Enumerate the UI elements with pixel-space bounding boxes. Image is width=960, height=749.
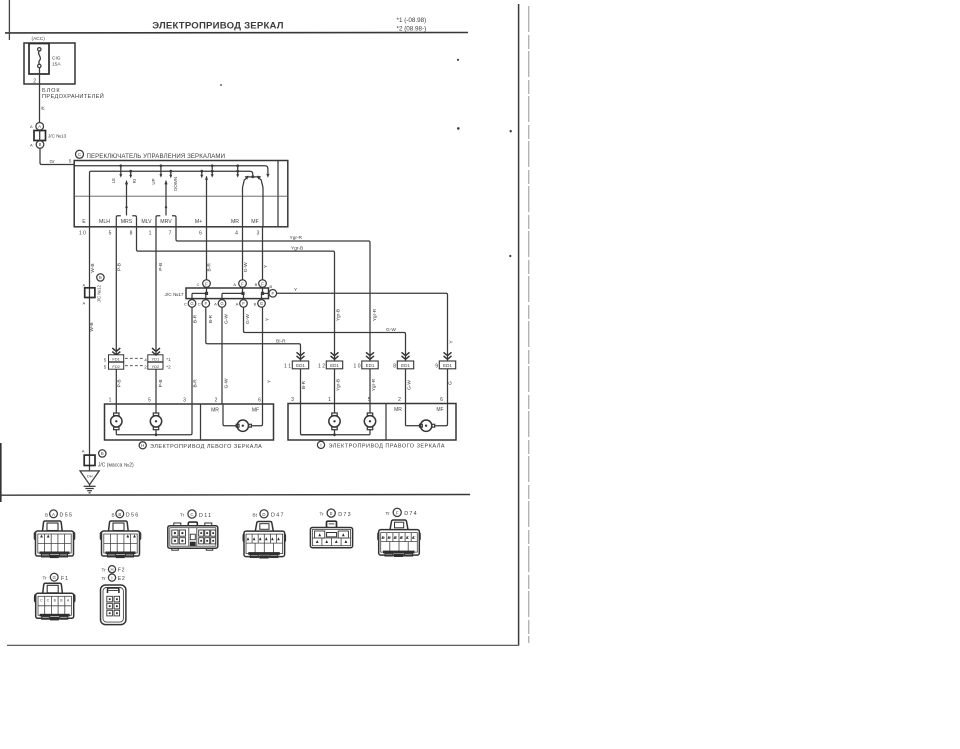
svg-text:*1 (-08.98): *1 (-08.98) bbox=[397, 17, 427, 24]
svg-text:YD1: YD1 bbox=[152, 356, 161, 361]
svg-text:2: 2 bbox=[33, 79, 36, 85]
svg-text:5: 5 bbox=[104, 365, 107, 370]
switch contact stub MF fixed crossing both buses bbox=[236, 164, 239, 177]
connector H drawing bbox=[101, 585, 126, 625]
svg-text:D11: D11 bbox=[199, 513, 212, 519]
svg-text:Ygr-B: Ygr-B bbox=[335, 379, 341, 391]
switch arch contact MR-MF bbox=[243, 176, 264, 188]
switch movable contact MRS bbox=[125, 180, 128, 216]
svg-text:ПЕРЕКЛЮЧАТЕЛЬ УПРАВЛЕНИЯ ЗЕРКА: ПЕРЕКЛЮЧАТЕЛЬ УПРАВЛЕНИЯ ЗЕРКАЛАМИ bbox=[87, 153, 226, 160]
page title bbox=[152, 20, 284, 31]
svg-text:2: 2 bbox=[398, 397, 401, 403]
svg-text:B-R: B-R bbox=[192, 379, 198, 388]
connector arrows above ED1 12 bbox=[331, 352, 339, 359]
wire E to ground, W-B bbox=[89, 227, 96, 471]
svg-text:J/C №17: J/C №17 bbox=[164, 292, 183, 298]
svg-text:F2: F2 bbox=[118, 568, 125, 574]
svg-text:C: C bbox=[184, 302, 187, 307]
left mirror caption bbox=[139, 442, 262, 450]
switch contact stub L fixed bbox=[119, 164, 122, 177]
wire G ED1 9 to right mirror pin6 bbox=[448, 369, 454, 404]
svg-text:G-W: G-W bbox=[245, 314, 251, 324]
svg-text:3: 3 bbox=[183, 398, 186, 404]
svg-text:1: 1 bbox=[149, 231, 152, 237]
svg-text:F: F bbox=[261, 281, 264, 286]
svg-text:Tr: Tr bbox=[43, 576, 48, 581]
svg-text:1 0: 1 0 bbox=[354, 364, 361, 370]
bottom page frame bbox=[7, 644, 519, 646]
svg-text:A: A bbox=[30, 143, 33, 148]
svg-text:I: I bbox=[320, 443, 321, 448]
connector arrows above FD1 bbox=[112, 348, 120, 355]
wire J/C13 to switch, color Gr bbox=[40, 148, 74, 164]
svg-text:G-W: G-W bbox=[243, 262, 249, 272]
svg-text:*1: *1 bbox=[166, 357, 171, 362]
wire arch leg MF to box bottom bbox=[262, 188, 264, 227]
wire MR G-W to J/C17 bbox=[243, 227, 249, 280]
svg-text:F1: F1 bbox=[61, 576, 69, 582]
svg-text:4: 4 bbox=[144, 357, 147, 362]
connector ED1 pin 10 bbox=[354, 361, 379, 370]
svg-text:5: 5 bbox=[368, 397, 371, 403]
right mirror pin numbers bbox=[291, 397, 443, 403]
svg-text:B: B bbox=[101, 451, 104, 456]
J/C17 top circle F pin A bbox=[233, 280, 246, 288]
J/C No12 junction on W-B wire bbox=[83, 274, 105, 306]
svg-text:MRS: MRS bbox=[121, 219, 133, 225]
wire J/C17 right output Y to ED1 9 bbox=[277, 287, 455, 361]
svg-text:DH: DH bbox=[87, 474, 93, 479]
J/C No17 box bbox=[164, 288, 268, 299]
J/C No13 junction bbox=[30, 123, 67, 149]
svg-text:ED1: ED1 bbox=[443, 363, 452, 368]
right mirror motor 2 bbox=[364, 413, 375, 435]
connector B pin marks bbox=[126, 535, 136, 538]
svg-text:1 1: 1 1 bbox=[284, 364, 291, 370]
right mirror MR-MF motor 3 bbox=[406, 404, 448, 432]
svg-text:D74: D74 bbox=[404, 511, 418, 517]
svg-text:(ACC): (ACC) bbox=[32, 36, 46, 42]
ground triangle bbox=[80, 471, 99, 485]
svg-text:G: G bbox=[448, 381, 454, 385]
svg-text:*2 (08.98-): *2 (08.98-) bbox=[397, 26, 427, 33]
switch inner middle line bbox=[74, 195, 288, 197]
svg-text:ED1: ED1 bbox=[401, 363, 410, 368]
connector ED1 pin 11 bbox=[284, 361, 309, 370]
svg-text:J/C №12: J/C №12 bbox=[97, 285, 102, 303]
connector ED1 pin 8 bbox=[393, 361, 413, 370]
svg-text:Ygr-R: Ygr-R bbox=[372, 308, 378, 321]
svg-text:B: B bbox=[99, 275, 102, 280]
svg-text:G: G bbox=[260, 301, 263, 306]
svg-text:B: B bbox=[112, 512, 115, 517]
svg-text:Ygr-B: Ygr-B bbox=[336, 309, 342, 321]
svg-text:A: A bbox=[214, 302, 217, 307]
svg-text:G-W: G-W bbox=[386, 327, 396, 333]
right page border second line bbox=[528, 6, 530, 643]
svg-text:15A: 15A bbox=[52, 62, 61, 68]
switch contact stub R2 fixed bbox=[169, 170, 172, 178]
svg-text:ЭЛЕКТРОПРИВОД ЛЕВОГО ЗЕРКАЛА: ЭЛЕКТРОПРИВОД ЛЕВОГО ЗЕРКАЛА bbox=[150, 444, 262, 450]
svg-text:E2: E2 bbox=[118, 576, 126, 582]
connector F top row letters bbox=[383, 536, 416, 540]
svg-text:E: E bbox=[330, 511, 333, 516]
svg-text:MF: MF bbox=[251, 219, 259, 225]
connector I label Tr E2 bbox=[102, 574, 126, 582]
svg-text:G: G bbox=[220, 301, 223, 306]
wire M+ B-R to J/C17 bbox=[207, 227, 213, 280]
svg-text:A: A bbox=[82, 449, 85, 454]
connector D drawing bbox=[243, 522, 285, 559]
wire G-W ED1 8 to right mirror pin2 bbox=[406, 369, 413, 426]
connector A drawing bbox=[34, 521, 74, 558]
bus1 end arrowhead bbox=[266, 174, 269, 178]
svg-text:A: A bbox=[83, 300, 86, 305]
wire MLV P-B column 2 bbox=[156, 217, 164, 404]
switch C label: mirror control switch bbox=[76, 150, 226, 160]
connector frame around MRV bbox=[156, 216, 176, 218]
svg-text:Tr: Tr bbox=[386, 511, 391, 516]
svg-text:P-B: P-B bbox=[158, 263, 164, 271]
svg-text:8: 8 bbox=[130, 231, 133, 237]
connector G label Tr F1 bbox=[43, 573, 69, 582]
svg-text:RI: RI bbox=[132, 179, 137, 183]
J/C17 bottom circle F pin C bbox=[198, 300, 210, 308]
svg-text:B-R: B-R bbox=[192, 314, 198, 323]
wire B-R ED1 11 to right mirror pin3 bbox=[301, 369, 335, 435]
svg-text:Ygr-B: Ygr-B bbox=[291, 246, 303, 252]
svg-text:C: C bbox=[197, 282, 200, 287]
connector F drawing bbox=[378, 520, 420, 557]
svg-text:6: 6 bbox=[199, 231, 202, 237]
right mirror bottom bus bbox=[301, 433, 371, 436]
svg-text:R: R bbox=[40, 106, 46, 110]
connector FD2-YD2 variant 2 bbox=[104, 362, 171, 370]
right mirror actuator box bbox=[288, 404, 456, 441]
svg-text:J/C №13: J/C №13 bbox=[48, 134, 67, 139]
J/C17 top circle F pin C bbox=[197, 280, 211, 288]
connector A pin marks bbox=[40, 535, 50, 538]
top rule bbox=[5, 32, 468, 34]
svg-text:F: F bbox=[205, 301, 208, 306]
svg-text:ED1: ED1 bbox=[366, 363, 375, 368]
J/C17 bottom circle F pin A bbox=[236, 300, 248, 308]
left page tick bbox=[8, 0, 10, 40]
right mirror caption bbox=[317, 441, 445, 449]
wire B-R to left mirror pin3 bbox=[192, 307, 198, 404]
connector arrows above ED1 8 bbox=[402, 352, 410, 359]
svg-text:2: 2 bbox=[215, 398, 218, 404]
svg-text:ЭЛЕКТРОПРИВОД ПРАВОГО ЗЕРКАЛА: ЭЛЕКТРОПРИВОД ПРАВОГО ЗЕРКАЛА bbox=[329, 444, 446, 450]
svg-text:9: 9 bbox=[435, 364, 438, 370]
svg-text:Tr: Tr bbox=[102, 568, 107, 573]
svg-text:1: 1 bbox=[328, 397, 331, 403]
svg-text:Tr: Tr bbox=[180, 513, 185, 518]
J/C17 bottom circle G pin C bbox=[184, 300, 196, 308]
connector arrows above ED1 9 bbox=[444, 352, 452, 359]
svg-text:7: 7 bbox=[169, 231, 172, 237]
connector ED1 pin 12 bbox=[318, 361, 343, 370]
svg-text:БЛОК: БЛОК bbox=[42, 88, 61, 94]
svg-text:P-B: P-B bbox=[116, 379, 122, 387]
switch contact stub UP fixed bbox=[200, 170, 203, 178]
svg-text:5: 5 bbox=[69, 158, 72, 163]
connector arrows above ED1 10 bbox=[366, 352, 374, 359]
svg-text:B: B bbox=[270, 284, 273, 289]
left mirror pin numbers bbox=[109, 398, 262, 404]
J/C17 internal bus C bbox=[192, 287, 208, 299]
svg-text:C: C bbox=[198, 302, 201, 307]
svg-text:4: 4 bbox=[235, 231, 238, 237]
svg-text:W-B: W-B bbox=[89, 322, 95, 331]
svg-text:I: I bbox=[111, 576, 112, 581]
wire G-W to left mirror pin2 bbox=[222, 307, 230, 404]
connector H label Tr F2 bbox=[102, 566, 126, 574]
svg-text:B: B bbox=[255, 282, 258, 287]
wire MLH P-B column 1 bbox=[116, 217, 122, 404]
svg-text:MRV: MRV bbox=[160, 219, 172, 225]
svg-text:FD1: FD1 bbox=[112, 356, 120, 361]
right mirror motor 1 bbox=[329, 413, 340, 435]
svg-text:ПРЕДОХРАНИТЕЛЕЙ: ПРЕДОХРАНИТЕЛЕЙ bbox=[42, 92, 104, 100]
fuse block outer box bbox=[24, 43, 75, 84]
svg-text:G-W: G-W bbox=[224, 378, 230, 388]
switch bus 2 with riser from E terminal bbox=[90, 171, 253, 227]
wire G-W to ED1 8 bbox=[244, 307, 406, 361]
left mirror MR MF labels bbox=[211, 407, 259, 413]
svg-text:1 0: 1 0 bbox=[79, 231, 86, 237]
svg-text:G-W: G-W bbox=[224, 314, 230, 324]
svg-text:E: E bbox=[82, 219, 86, 225]
svg-text:B-R: B-R bbox=[208, 314, 214, 323]
right mirror box divider bbox=[385, 404, 387, 441]
svg-text:*2: *2 bbox=[166, 364, 171, 369]
svg-text:H: H bbox=[110, 567, 113, 572]
svg-text:F: F bbox=[242, 301, 245, 306]
svg-text:FD2: FD2 bbox=[112, 364, 120, 369]
svg-text:A: A bbox=[52, 512, 55, 517]
schematic bottom rule bbox=[0, 494, 470, 497]
switch M+ line bbox=[206, 176, 208, 226]
svg-text:B-R: B-R bbox=[207, 263, 213, 272]
svg-text:H: H bbox=[141, 443, 144, 448]
svg-text:MLH: MLH bbox=[99, 219, 110, 225]
connector frame around MRS bbox=[116, 216, 136, 218]
svg-text:6: 6 bbox=[258, 398, 261, 404]
wire Y to left mirror pin6 bbox=[263, 307, 273, 404]
svg-text:UP: UP bbox=[151, 178, 156, 184]
connector D label Bt D47 bbox=[253, 510, 285, 519]
connector ED1 pin 9 bbox=[435, 361, 455, 370]
svg-text:DOWN: DOWN bbox=[173, 177, 178, 191]
svg-text:A: A bbox=[83, 283, 86, 288]
svg-text:MF: MF bbox=[436, 407, 443, 413]
svg-text:F: F bbox=[272, 291, 275, 296]
J/C17 bottom circle G pin B bbox=[254, 300, 266, 308]
right page border bbox=[518, 4, 520, 646]
wire MRV Ygr-R bbox=[176, 217, 378, 361]
svg-text:Tr: Tr bbox=[320, 512, 325, 517]
wire arch leg MR to box bottom bbox=[242, 188, 244, 227]
svg-text:B: B bbox=[45, 512, 48, 517]
wire Ygr-B ED1 12 to right mirror motor1 bbox=[335, 369, 342, 413]
svg-text:F: F bbox=[241, 281, 244, 286]
svg-text:D73: D73 bbox=[338, 512, 352, 518]
svg-text:A: A bbox=[233, 282, 236, 287]
switch contact stub DOWN fixed crossing both buses bbox=[211, 164, 214, 177]
svg-text:A: A bbox=[236, 302, 239, 307]
svg-text:A: A bbox=[38, 124, 41, 129]
svg-text:1: 1 bbox=[109, 398, 112, 404]
svg-text:Bt: Bt bbox=[253, 512, 258, 517]
left mirror box divider bbox=[200, 404, 202, 440]
svg-text:D55: D55 bbox=[60, 513, 74, 519]
connector E drawing bbox=[310, 521, 352, 548]
svg-text:G: G bbox=[190, 301, 193, 306]
svg-text:ED1: ED1 bbox=[330, 363, 339, 368]
wire MRS Ygr-B bbox=[137, 217, 342, 361]
J/C17 right circle F pin B bbox=[269, 284, 277, 297]
bus2 end junction dot on arch bbox=[251, 175, 254, 178]
connector A label B D55 bbox=[45, 510, 73, 519]
connector arrows above ED1 11 bbox=[297, 352, 305, 359]
switch pin numbers bbox=[79, 231, 260, 237]
J/C17 bottom circle G pin A bbox=[214, 300, 226, 308]
wire MF Y to J/C17 bbox=[263, 227, 269, 280]
left mirror actuator box bbox=[105, 404, 274, 440]
svg-text:5: 5 bbox=[104, 357, 107, 362]
svg-text:MF: MF bbox=[252, 407, 259, 413]
svg-text:ED1: ED1 bbox=[296, 363, 305, 368]
wire B-R to ED1 11 bbox=[206, 307, 301, 361]
svg-text:B: B bbox=[118, 512, 121, 517]
svg-text:MR: MR bbox=[231, 219, 239, 225]
svg-text:2: 2 bbox=[144, 365, 147, 370]
switch terminal labels bbox=[82, 219, 258, 225]
svg-text:Ygr-R: Ygr-R bbox=[371, 378, 377, 391]
svg-text:ЭЛЕКТРОПРИВОД ЗЕРКАЛ: ЭЛЕКТРОПРИВОД ЗЕРКАЛ bbox=[152, 20, 284, 31]
svg-text:M+: M+ bbox=[195, 219, 202, 225]
svg-text:MLV: MLV bbox=[141, 219, 152, 225]
svg-text:P-B: P-B bbox=[158, 379, 164, 387]
svg-text:B!-R: B!-R bbox=[276, 338, 286, 344]
right mirror MR MF labels bbox=[394, 407, 444, 413]
connector C drawing bbox=[168, 522, 218, 550]
svg-text:G: G bbox=[52, 575, 56, 580]
fuse CIG 15A bbox=[29, 44, 61, 85]
svg-text:J/C (масса №2): J/C (масса №2) bbox=[98, 462, 134, 468]
svg-text:3: 3 bbox=[257, 231, 260, 237]
connector C label Tr D11 bbox=[180, 510, 212, 519]
connector F label Tr D74 bbox=[386, 508, 418, 517]
svg-text:YD2: YD2 bbox=[152, 364, 161, 369]
connector FD1-YD1 variant 1 bbox=[104, 355, 171, 363]
svg-text:F: F bbox=[396, 510, 399, 515]
svg-text:1 2: 1 2 bbox=[318, 364, 325, 370]
svg-text:B-R: B-R bbox=[301, 380, 307, 389]
svg-text:Gr: Gr bbox=[50, 159, 56, 164]
svg-text:F: F bbox=[205, 281, 208, 286]
left mirror MR-MF motor 3 bbox=[223, 404, 263, 431]
switch contact stub R fixed bbox=[159, 164, 162, 177]
svg-text:D: D bbox=[262, 512, 265, 517]
left mirror bottom bus bbox=[116, 404, 192, 436]
svg-text:D56: D56 bbox=[126, 513, 140, 519]
connector arrows above YD1 bbox=[152, 348, 160, 355]
svg-text:MR: MR bbox=[211, 407, 219, 413]
switch box bbox=[74, 161, 288, 227]
svg-text:3: 3 bbox=[291, 397, 294, 403]
connector G top row letters bbox=[40, 599, 70, 603]
ground symbol bbox=[84, 485, 96, 493]
switch bus 1 bbox=[74, 166, 268, 174]
svg-text:6: 6 bbox=[440, 397, 443, 403]
svg-text:W-B: W-B bbox=[90, 263, 96, 272]
svg-text:5: 5 bbox=[109, 231, 112, 237]
switch inner divider right column bbox=[277, 161, 279, 227]
J/C17 internal bus A bbox=[222, 287, 245, 299]
connector E label Tr D73 bbox=[320, 509, 352, 518]
svg-text:LE: LE bbox=[111, 178, 116, 183]
wire Ygr-R ED1 10 to right mirror motor2 bbox=[370, 369, 377, 413]
connector G drawing bbox=[35, 583, 75, 620]
svg-text:B: B bbox=[39, 142, 42, 147]
ground junction J/C масса No2 bbox=[82, 449, 134, 469]
svg-text:P-B: P-B bbox=[117, 263, 123, 271]
J/C17 top circle F pin B bbox=[255, 280, 267, 288]
svg-text:CIG: CIG bbox=[52, 56, 61, 62]
scan specks bbox=[457, 59, 459, 61]
svg-text:A: A bbox=[30, 124, 33, 129]
svg-text:8: 8 bbox=[393, 364, 396, 370]
svg-text:MR: MR bbox=[394, 407, 402, 413]
left mirror motor 1 bbox=[111, 404, 122, 435]
svg-text:B: B bbox=[254, 302, 257, 307]
switch movable contact MRV bbox=[164, 180, 167, 216]
svg-text:G-W: G-W bbox=[406, 380, 412, 390]
svg-text:C: C bbox=[190, 512, 193, 517]
svg-text:D47: D47 bbox=[271, 513, 285, 519]
svg-text:5: 5 bbox=[148, 398, 151, 404]
J/C17 internal bus B bbox=[261, 287, 269, 299]
svg-text:Ygr-R: Ygr-R bbox=[290, 235, 303, 241]
switch contact stub L2 fixed bbox=[129, 170, 132, 178]
connector B drawing bbox=[100, 521, 140, 558]
connector B label B D56 bbox=[112, 510, 140, 519]
left page edge segment bbox=[0, 443, 2, 502]
variant notes bbox=[397, 17, 427, 33]
svg-text:Tr: Tr bbox=[102, 576, 107, 581]
left mirror motor 2 bbox=[150, 404, 161, 435]
wire fuse to J/C13, color R bbox=[40, 68, 47, 123]
